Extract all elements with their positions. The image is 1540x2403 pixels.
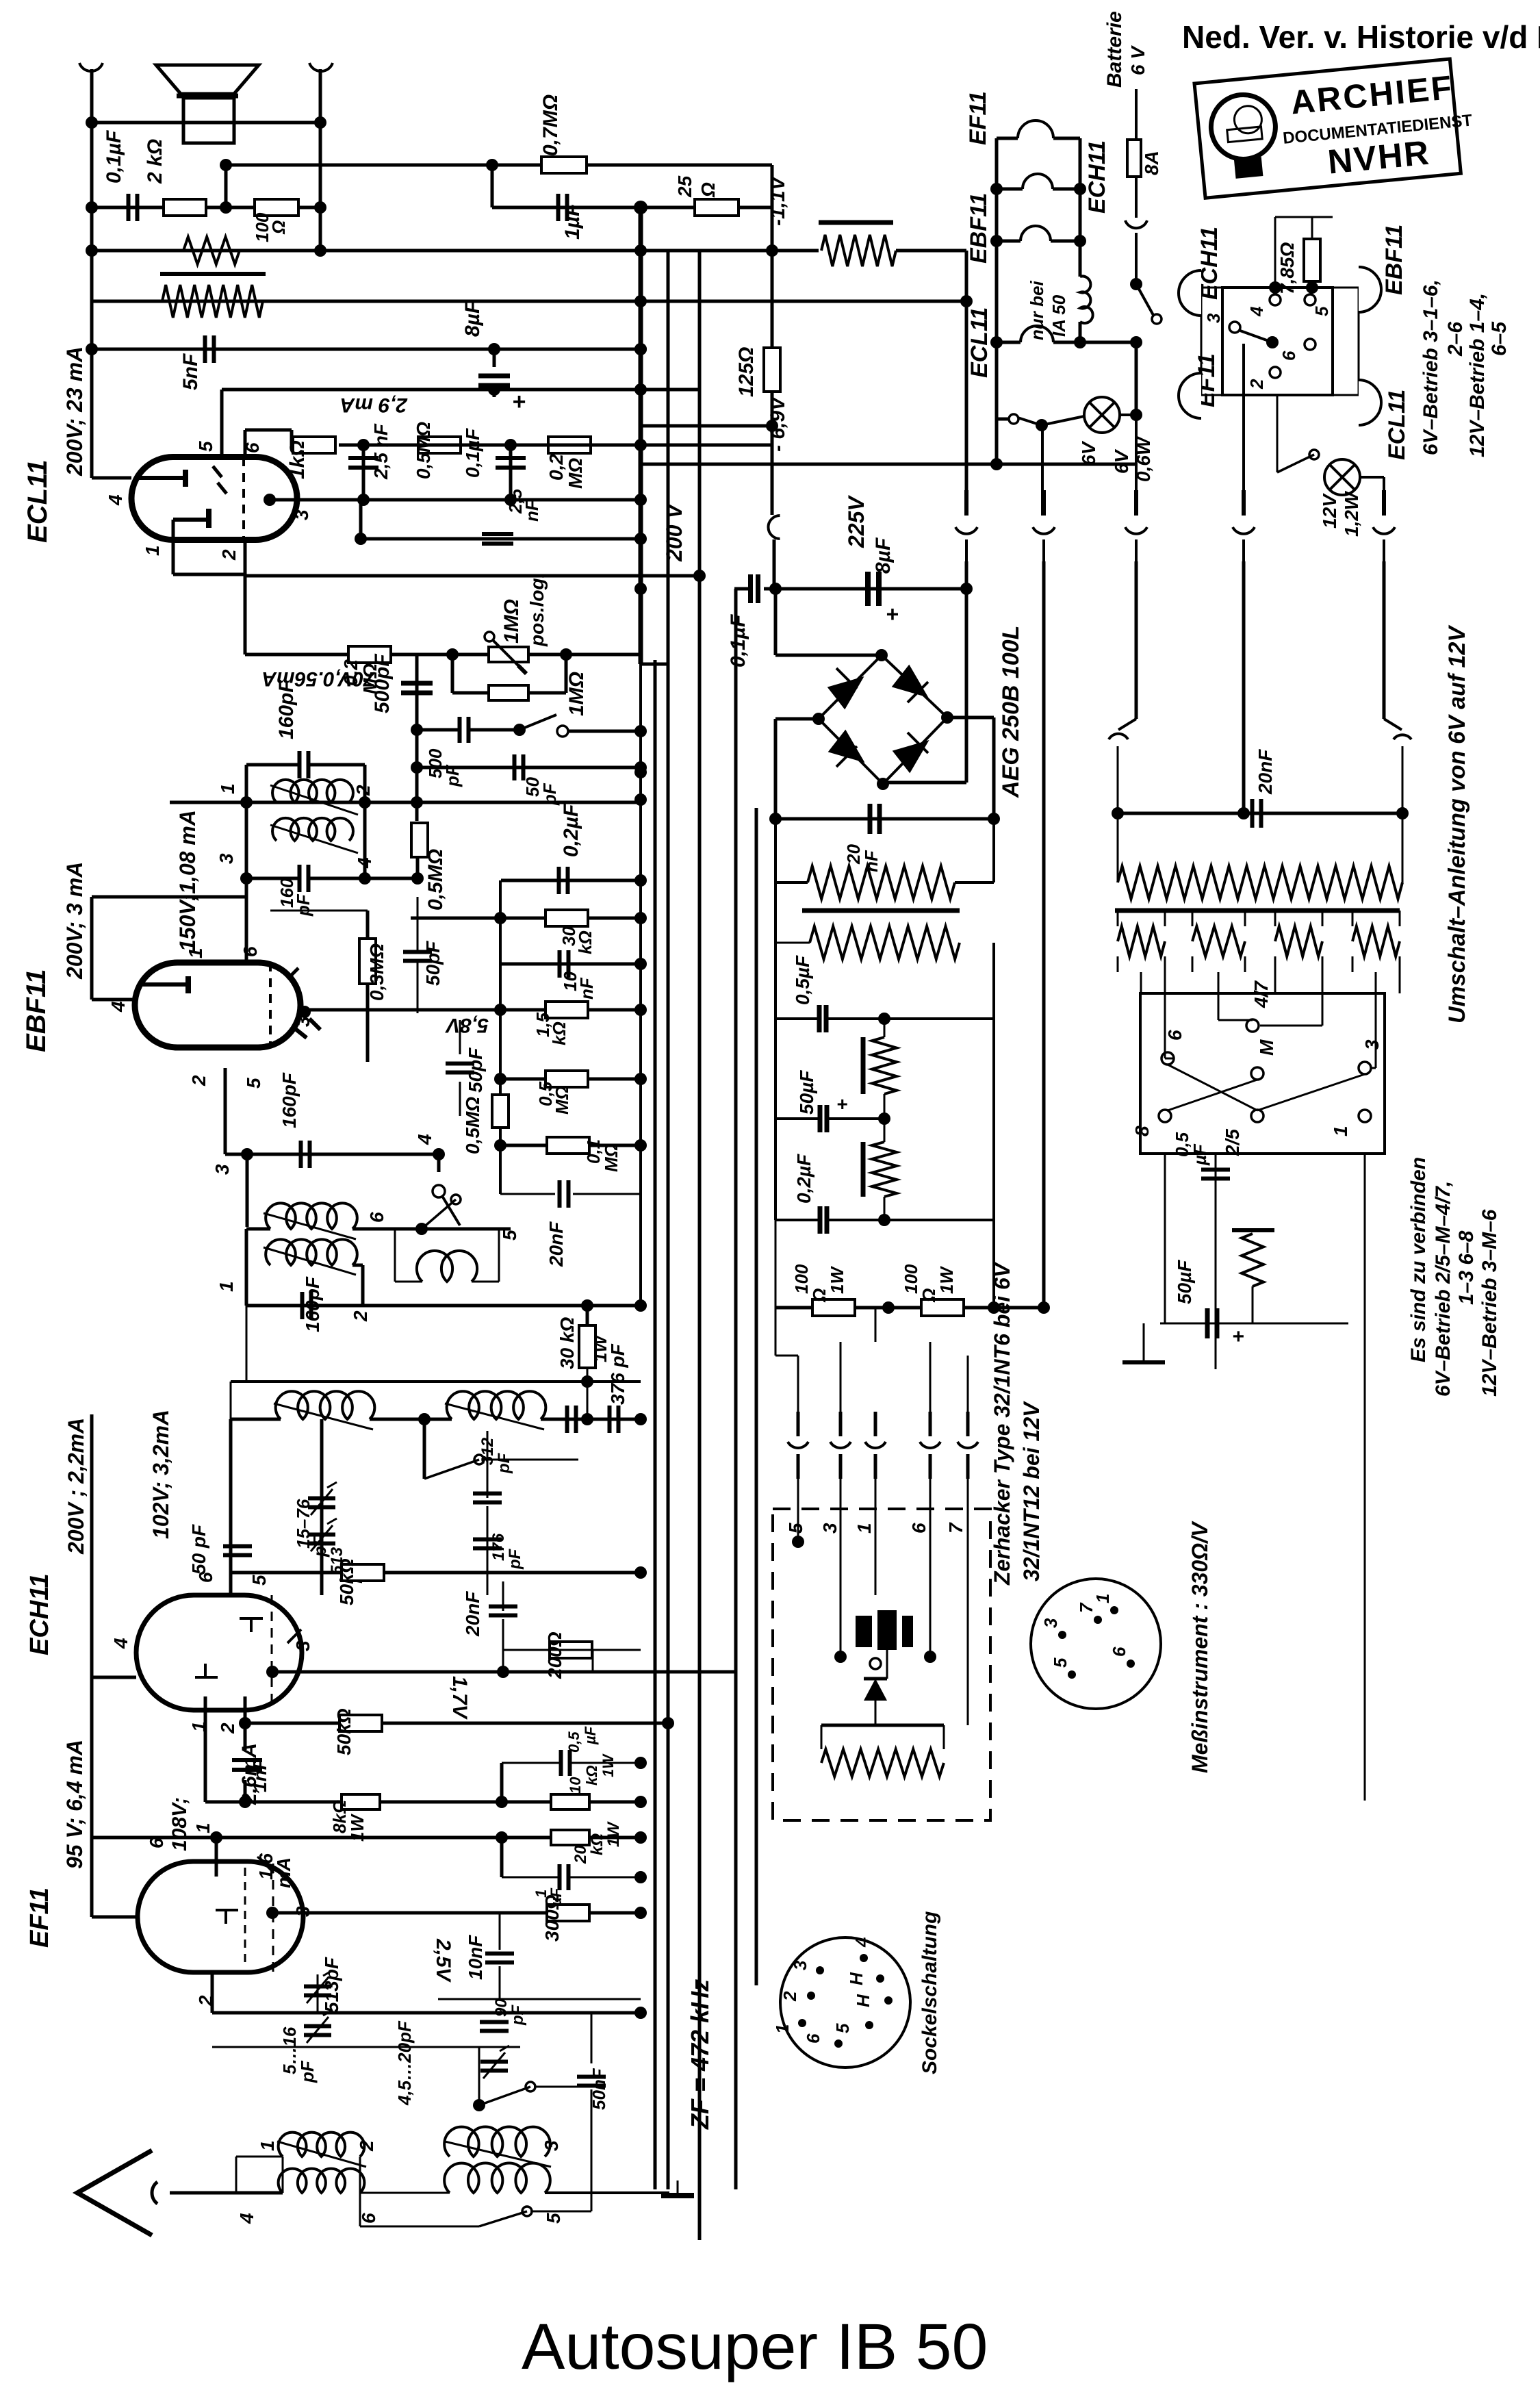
svg-text:2: 2 (188, 1075, 209, 1086)
svg-text:1: 1 (1330, 1126, 1351, 1136)
svg-text:3: 3 (790, 1960, 810, 1970)
svg-text:EF11: EF11 (965, 91, 991, 145)
svg-text:6–5: 6–5 (1488, 321, 1511, 356)
svg-text:AEG 250B 100L: AEG 250B 100L (998, 626, 1024, 798)
svg-text:0,2µF: 0,2µF (560, 804, 582, 857)
svg-text:nur bei: nur bei (1027, 281, 1047, 340)
svg-text:5nF: 5nF (179, 353, 202, 390)
svg-text:0,1µF: 0,1µF (103, 130, 125, 183)
svg-text:Meßinstrument : 330Ω/V: Meßinstrument : 330Ω/V (1188, 1521, 1212, 1773)
svg-text:50pF: 50pF (465, 1047, 486, 1093)
svg-text:50kΩ: 50kΩ (333, 1708, 355, 1755)
svg-text:5: 5 (1311, 306, 1332, 316)
svg-text:1kΩ: 1kΩ (286, 440, 309, 479)
svg-text:MΩ: MΩ (565, 458, 586, 489)
svg-text:12V–Betrieb 3–M–6: 12V–Betrieb 3–M–6 (1478, 1209, 1501, 1397)
svg-text:EBF11: EBF11 (21, 969, 51, 1052)
svg-text:6: 6 (240, 946, 261, 957)
svg-text:0,5µF: 0,5µF (792, 955, 813, 1005)
svg-text:2: 2 (352, 785, 374, 796)
svg-text:3: 3 (291, 509, 312, 520)
svg-text:Sockelschaltung: Sockelschaltung (919, 1911, 941, 2074)
svg-text:Es sind zu verbinden: Es sind zu verbinden (1407, 1157, 1430, 1362)
svg-text:2/5: 2/5 (1222, 1129, 1243, 1156)
svg-text:MΩ: MΩ (601, 1143, 621, 1172)
svg-text:pF: pF (506, 1548, 524, 1570)
svg-text:3: 3 (216, 853, 237, 864)
svg-text:3: 3 (1040, 1618, 1061, 1628)
svg-text:8: 8 (1131, 1126, 1153, 1136)
svg-text:20nF: 20nF (546, 1221, 567, 1267)
svg-text:0,5MΩ: 0,5MΩ (462, 1097, 483, 1154)
svg-text:1MΩ: 1MΩ (500, 599, 523, 644)
svg-text:5: 5 (1050, 1657, 1070, 1668)
svg-text:4: 4 (414, 1134, 435, 1145)
svg-text:5,8V: 5,8V (444, 1014, 489, 1037)
svg-text:25: 25 (674, 175, 695, 198)
svg-text:2,5V: 2,5V (432, 1938, 454, 1983)
svg-text:µF: µF (582, 1726, 599, 1745)
svg-text:ECL11: ECL11 (1384, 390, 1410, 460)
svg-text:4,5…20pF: 4,5…20pF (394, 2020, 415, 2106)
svg-text:1: 1 (854, 1523, 875, 1534)
svg-text:MΩ: MΩ (552, 1086, 572, 1115)
svg-text:1: 1 (257, 2140, 278, 2151)
svg-text:3: 3 (541, 2140, 562, 2151)
svg-text:125Ω: 125Ω (735, 347, 758, 397)
svg-text:12V–Betrieb 1–4,: 12V–Betrieb 1–4, (1466, 293, 1489, 457)
svg-text:20nF: 20nF (462, 1591, 483, 1637)
svg-text:50 pF: 50 pF (188, 1524, 209, 1575)
svg-text:1W: 1W (936, 1266, 957, 1294)
svg-text:10nF: 10nF (465, 1935, 486, 1980)
svg-text:2,5 nF: 2,5 nF (370, 423, 392, 480)
svg-text:0,1µF: 0,1µF (727, 614, 749, 667)
svg-text:pF: pF (495, 1452, 513, 1474)
svg-text:pF: pF (297, 2060, 318, 2083)
svg-text:-1,1V: -1,1V (767, 175, 789, 226)
svg-text:M: M (1256, 1039, 1277, 1056)
svg-text:2–6: 2–6 (1444, 322, 1467, 357)
svg-text:2: 2 (218, 549, 240, 561)
svg-text:1: 1 (217, 783, 238, 794)
svg-text:0,5: 0,5 (565, 1731, 582, 1753)
svg-text:150V;1,08 mA: 150V;1,08 mA (175, 810, 200, 952)
svg-text:1: 1 (192, 1822, 214, 1833)
svg-text:5: 5 (195, 441, 216, 452)
svg-text:nF: nF (576, 977, 597, 1000)
svg-text:kΩ: kΩ (575, 930, 595, 954)
svg-text:0,7MΩ: 0,7MΩ (539, 94, 562, 156)
svg-text:2: 2 (217, 1722, 238, 1734)
svg-text:4: 4 (110, 1638, 131, 1649)
svg-text:+: + (1232, 1325, 1244, 1348)
svg-text:5: 5 (832, 2023, 853, 2033)
svg-text:1,2W: 1,2W (1341, 490, 1362, 537)
svg-text:kΩ: kΩ (588, 1833, 606, 1855)
svg-text:10: 10 (567, 1777, 584, 1794)
svg-text:5: 5 (243, 1078, 264, 1089)
svg-text:ECL11: ECL11 (23, 459, 53, 543)
svg-text:2: 2 (780, 1991, 800, 2002)
svg-text:1: 1 (216, 1281, 237, 1292)
svg-text:nF: nF (861, 850, 882, 872)
svg-text:2,6mA: 2,6mA (238, 1743, 261, 1805)
svg-text:50µF: 50µF (796, 1070, 817, 1115)
svg-text:4: 4 (1246, 306, 1267, 317)
svg-text:3: 3 (211, 1164, 233, 1175)
svg-text:6V–Betrieb 3–1–6,: 6V–Betrieb 3–1–6, (1420, 279, 1442, 455)
svg-text:+: + (512, 389, 526, 415)
svg-text:160pF: 160pF (275, 680, 298, 739)
svg-text:+: + (886, 602, 899, 626)
svg-text:6: 6 (366, 1212, 387, 1223)
svg-text:108V;: 108V; (168, 1797, 191, 1851)
svg-text:3: 3 (292, 1640, 313, 1651)
svg-text:Umschalt–Anleitung von 6V auf: Umschalt–Anleitung von 6V auf 12V (1444, 624, 1470, 1023)
svg-text:5: 5 (248, 1575, 270, 1586)
svg-text:300Ω: 300Ω (541, 1894, 563, 1942)
svg-text:8µF: 8µF (461, 301, 484, 337)
svg-text:1W: 1W (600, 1753, 617, 1777)
svg-text:EBF11: EBF11 (1381, 225, 1407, 295)
svg-text:6V–Betrieb 2/5–M–4/7,: 6V–Betrieb 2/5–M–4/7, (1432, 1181, 1454, 1397)
svg-text:kΩ: kΩ (583, 1766, 600, 1785)
svg-text:H: H (846, 1972, 867, 1985)
svg-text:50kΩ: 50kΩ (336, 1558, 357, 1605)
svg-text:EBF11: EBF11 (966, 193, 992, 264)
svg-text:200Ω: 200Ω (544, 1631, 565, 1679)
svg-text:1: 1 (772, 2024, 793, 2034)
svg-text:500pF: 500pF (371, 654, 394, 713)
svg-text:pos.log.: pos.log. (526, 573, 548, 647)
svg-text:3: 3 (819, 1523, 840, 1534)
svg-text:Autosuper IB 50: Autosuper IB 50 (522, 2311, 988, 2383)
svg-text:32/1NT12 bei 12V: 32/1NT12 bei 12V (1019, 1401, 1044, 1581)
svg-text:Ω: Ω (697, 182, 719, 198)
svg-text:6: 6 (803, 2033, 823, 2044)
svg-text:1: 1 (142, 545, 163, 556)
svg-text:50pF: 50pF (422, 941, 444, 986)
svg-text:102V; 3,2mA: 102V; 3,2mA (149, 1410, 173, 1539)
svg-text:4: 4 (107, 1001, 129, 1013)
svg-text:+: + (836, 1093, 847, 1115)
svg-text:0,3MΩ: 0,3MΩ (366, 943, 387, 1001)
svg-text:8A: 8A (1141, 151, 1162, 175)
svg-text:2: 2 (350, 1310, 371, 1322)
svg-text:225V: 225V (844, 495, 869, 548)
svg-text:2 kΩ: 2 kΩ (144, 139, 166, 184)
svg-text:4: 4 (236, 2213, 257, 2224)
svg-text:200V; 3 mA: 200V; 3 mA (62, 862, 87, 980)
svg-text:4: 4 (851, 1937, 872, 1948)
svg-text:160pF: 160pF (302, 1276, 323, 1332)
svg-text:6: 6 (358, 2213, 379, 2224)
svg-text:1: 1 (1092, 1594, 1113, 1603)
svg-text:8µF: 8µF (872, 537, 895, 574)
svg-text:0,2: 0,2 (546, 454, 567, 481)
svg-text:3: 3 (1361, 1039, 1383, 1050)
svg-text:ECL11: ECL11 (966, 307, 992, 378)
svg-text:376 pF: 376 pF (607, 1343, 628, 1405)
svg-text:5: 5 (499, 1230, 520, 1241)
svg-text:6: 6 (908, 1523, 929, 1534)
svg-text:pF: pF (293, 893, 313, 917)
svg-text:0,5MΩ: 0,5MΩ (424, 849, 447, 911)
svg-text:pF: pF (509, 2004, 527, 2026)
svg-text:2: 2 (356, 2140, 377, 2152)
svg-text:Ω: Ω (268, 220, 289, 235)
svg-text:0,5MΩ: 0,5MΩ (413, 422, 434, 479)
svg-text:nF: nF (522, 499, 542, 522)
svg-text:5: 5 (543, 2213, 564, 2224)
svg-text:5: 5 (785, 1523, 806, 1534)
svg-text:1µF: 1µF (561, 203, 584, 240)
svg-text:1,7V: 1,7V (448, 1676, 471, 1720)
svg-text:pF: pF (309, 1534, 330, 1557)
svg-text:176: 176 (489, 1533, 508, 1561)
svg-text:200 V: 200 V (662, 503, 686, 562)
svg-text:ECH11: ECH11 (1084, 140, 1110, 214)
svg-text:90: 90 (492, 1998, 511, 2017)
svg-text:0,1µF: 0,1µF (462, 428, 483, 478)
svg-text:1: 1 (185, 948, 206, 958)
svg-text:200V; 23 mA: 200V; 23 mA (62, 346, 87, 476)
svg-text:EF11: EF11 (25, 1887, 54, 1948)
svg-text:12V: 12V (1319, 493, 1340, 529)
svg-text:30 kΩ: 30 kΩ (556, 1317, 578, 1369)
svg-text:Zerhacker Type 32/1NT6 bei 6V: Zerhacker Type 32/1NT6 bei 6V (990, 1261, 1014, 1586)
svg-text:6V: 6V (1111, 448, 1132, 474)
svg-text:4/7: 4/7 (1250, 980, 1272, 1008)
svg-text:6V: 6V (1078, 440, 1099, 466)
svg-text:1MΩ: 1MΩ (565, 672, 588, 716)
svg-text:1W: 1W (827, 1266, 847, 1294)
svg-text:20: 20 (572, 1845, 590, 1864)
svg-text:Ned. Ver. v. Historie v/d Radi: Ned. Ver. v. Historie v/d Radi (1182, 19, 1540, 55)
svg-text:513pF: 513pF (321, 1957, 342, 2013)
svg-text:200V ; 2,2mA: 200V ; 2,2mA (64, 1418, 88, 1555)
svg-text:1W: 1W (604, 1821, 623, 1847)
svg-text:20nF: 20nF (1255, 749, 1276, 795)
svg-text:3: 3 (1203, 313, 1224, 323)
svg-text:2,9 mA: 2,9 mA (340, 394, 408, 416)
svg-text:H: H (853, 1994, 873, 2007)
svg-text:95 V; 6,4 mA: 95 V; 6,4 mA (62, 1740, 87, 1869)
svg-text:µF: µF (1190, 1143, 1210, 1166)
svg-text:6: 6 (1109, 1646, 1129, 1657)
svg-text:6: 6 (1164, 1030, 1185, 1041)
svg-text:50µF: 50µF (1174, 1260, 1195, 1304)
svg-text:160pF: 160pF (279, 1072, 300, 1128)
svg-text:IA 50: IA 50 (1049, 294, 1069, 337)
svg-text:0,2µF: 0,2µF (793, 1154, 814, 1204)
svg-text:kΩ: kΩ (549, 1021, 569, 1045)
svg-text:1–3 6–8: 1–3 6–8 (1455, 1230, 1478, 1305)
svg-text:6: 6 (1279, 351, 1299, 361)
svg-text:Batterie: Batterie (1103, 11, 1126, 88)
svg-text:2: 2 (1246, 379, 1267, 390)
svg-text:ZF = 472 kHz: ZF = 472 kHz (686, 1979, 714, 2130)
svg-text:ECH11: ECH11 (25, 1573, 54, 1655)
svg-text:4: 4 (105, 494, 126, 506)
svg-text:6 V: 6 V (1127, 45, 1148, 75)
svg-text:7: 7 (945, 1522, 966, 1534)
